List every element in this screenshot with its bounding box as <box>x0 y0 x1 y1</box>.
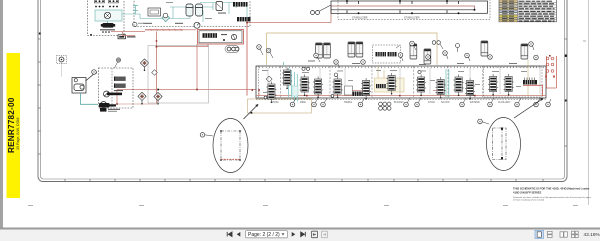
svg-text:S/LOCK: S/LOCK <box>441 101 450 104</box>
teal tee fitting 2 <box>133 11 138 15</box>
schematic frame outer border <box>38 0 567 182</box>
view mode single page selected <box>535 230 544 238</box>
detail ellipse 1 <box>213 119 248 173</box>
control valve cluster dashed box <box>99 68 134 108</box>
relief valve circle with arrow <box>104 91 110 97</box>
band dashed underline <box>256 99 546 101</box>
window chrome left strip <box>0 0 3 229</box>
hbar aux A <box>376 52 387 56</box>
pump enclosure teal box <box>95 10 122 21</box>
gauge circle <box>194 22 200 28</box>
gear pump circle <box>59 57 64 62</box>
band section dividers <box>281 66 483 98</box>
svg-text:SWING: SWING <box>344 101 352 104</box>
cyan pilot lines section 2 <box>289 68 298 102</box>
pin dots under solenoid <box>102 31 104 33</box>
relay box K1 <box>118 35 126 39</box>
page combo box <box>246 231 288 238</box>
spool s2c <box>313 77 323 99</box>
red wire harness main left <box>111 6 331 104</box>
svg-text:STICK: STICK <box>428 101 435 104</box>
cyan tick above band <box>283 62 285 66</box>
small box s3 <box>345 86 353 95</box>
callouts below band <box>290 102 295 107</box>
legend row 8 swatch <box>499 17 517 19</box>
teal tee fitting 1 <box>133 6 138 11</box>
spool s3a <box>333 77 343 99</box>
connector bank 2 <box>109 0 118 7</box>
spool s2a <box>282 68 292 90</box>
svg-text:STABILIZER: STABILIZER <box>352 15 368 19</box>
solenoid block black <box>103 23 114 28</box>
pump lever arm <box>86 73 96 81</box>
red connector bundle right of band <box>547 56 557 88</box>
solenoid hbar B <box>114 84 126 88</box>
port circle in valve box <box>231 34 236 39</box>
top-mid cluster dashed enclosure <box>134 0 250 27</box>
diamond s1 <box>266 76 272 82</box>
label 4WD <box>100 29 115 30</box>
frame zone ticks bottom <box>65 179 543 182</box>
view mode facing <box>560 232 567 237</box>
tan pilot line vertical <box>266 33 268 65</box>
valve box with red border <box>198 30 244 45</box>
connector bank frames <box>95 0 105 3</box>
label right of relay <box>127 36 136 37</box>
svg-text:THIS SCHEMATIC IS FOR THE 416D: THIS SCHEMATIC IS FOR THE 416D, 424D (Ma… <box>513 187 590 191</box>
view mode continuous <box>548 231 553 237</box>
main pump box P1 <box>72 78 86 94</box>
red harness hatched segment <box>145 29 183 31</box>
hbar s4 <box>376 84 386 88</box>
micro labels above band <box>308 61 517 66</box>
callout leader lines above band <box>260 46 534 69</box>
callout ellipse 1 <box>200 133 205 138</box>
detail ellipse 2 <box>487 118 521 171</box>
leader arrow ellipse 2 <box>514 99 543 119</box>
band top pin comb <box>256 66 546 68</box>
svg-text:EXTEND: EXTEND <box>470 101 480 104</box>
lower pump blob <box>101 102 107 108</box>
detail rect 2 dash-dot <box>493 128 507 160</box>
gear pump dashed box upper <box>57 56 67 64</box>
callout above cluster <box>116 58 121 63</box>
legend row 5 swatch <box>499 10 517 12</box>
aux box arrow <box>396 46 400 49</box>
top-left cluster dashed enclosure <box>88 0 125 36</box>
zone marker right lower <box>565 100 567 102</box>
yellow tab RENR7782-00 <box>7 53 21 198</box>
harness label block <box>100 108 107 112</box>
junction squares on red bus <box>157 89 159 91</box>
connector cluster six circles <box>379 102 391 110</box>
cylinder pair above band 2 <box>348 42 355 57</box>
svg-text:39 Page, B/W, DGM: 39 Page, B/W, DGM <box>16 118 20 150</box>
red bus segment upper in band <box>352 90 368 92</box>
legend row 3 swatch <box>499 5 517 7</box>
cylinder above band 6 <box>521 44 528 59</box>
btn prev page <box>237 232 241 237</box>
control group boundary rect <box>148 46 209 104</box>
detail rect 1 dash-dot <box>221 131 240 160</box>
zone marker left <box>39 33 41 35</box>
svg-text:STABILIZER: STABILIZER <box>404 15 420 19</box>
svg-text:RIDE: RIDE <box>300 101 306 104</box>
micro label speckles <box>138 2 527 93</box>
tan pilot line horizontal <box>267 33 438 65</box>
spool s6a <box>454 75 464 97</box>
btn first page <box>227 232 232 237</box>
rail axle ticks <box>347 1 459 13</box>
cyan pilot lines section 6 <box>446 69 449 97</box>
spool s7b <box>504 74 514 96</box>
btn next view <box>322 231 328 238</box>
cylinder above band 3 <box>410 44 417 59</box>
svg-text:416D S/N BFP SERIES: 416D S/N BFP SERIES <box>513 191 542 195</box>
junction dot left <box>90 34 92 36</box>
small port circle <box>163 13 168 18</box>
svg-text:BUCKET: BUCKET <box>394 101 404 104</box>
svg-text:BOOM: BOOM <box>271 101 278 104</box>
svg-text:43.18%: 43.18% <box>584 232 600 238</box>
toolbar background <box>0 230 600 241</box>
accumulator cylinder 1 <box>186 4 193 16</box>
legend row 4 swatch <box>499 8 517 10</box>
thin interior wires band <box>268 68 540 94</box>
detail rect 1 corner dots <box>220 130 222 132</box>
callout B right of cluster <box>133 22 137 26</box>
callouts above band <box>257 45 262 50</box>
page edge line right <box>588 0 590 205</box>
suction dotted line <box>61 64 63 78</box>
stabilizer rails box <box>331 1 488 13</box>
pressure tap diamond 3 <box>154 92 162 104</box>
spool s7a <box>488 74 498 96</box>
band left dashed edge <box>258 66 260 98</box>
svg-text:Page: 2 (2 / 2): Page: 2 (2 / 2) <box>248 232 280 238</box>
legend table border <box>499 0 557 22</box>
connector trio ooo <box>225 46 239 53</box>
cylinder pair above band 1 <box>316 43 323 58</box>
legend grid lines <box>499 0 557 22</box>
btn next page <box>292 232 296 237</box>
spool s3b <box>361 78 371 100</box>
svg-text:Schematic are those available: Schematic are those available on a fully… <box>513 196 591 199</box>
accumulator cylinder 2 <box>196 4 203 16</box>
frame zone ticks right <box>565 39 568 146</box>
btn prev view <box>312 231 318 238</box>
manifold box <box>148 8 161 16</box>
hatched block top right <box>233 2 248 7</box>
teal pilot lines web <box>122 3 247 23</box>
spool s1 <box>266 82 276 104</box>
cylinder above band 4 <box>424 49 431 64</box>
spool s6b <box>465 78 475 100</box>
red wire resistor ladder <box>523 85 543 95</box>
teal diamond fitting <box>162 14 170 22</box>
port labels cluster <box>114 90 123 91</box>
connector pair above band right <box>432 41 436 45</box>
hbar s3 <box>353 92 365 96</box>
port circle above band right <box>456 44 460 48</box>
hatched block 2 <box>237 17 251 21</box>
spool s4 <box>387 73 397 95</box>
spool s5a <box>416 75 426 97</box>
small labels top-mid <box>143 23 152 24</box>
leader arrow ellipse 1 <box>244 105 259 120</box>
legend row 1 swatch <box>499 0 517 2</box>
main valve band outline <box>256 66 546 98</box>
small diamond outline <box>152 70 158 76</box>
connector bank 1 <box>95 0 104 7</box>
btn last page <box>301 232 306 237</box>
hatched solenoid in valve box <box>203 33 218 38</box>
rail junction dots <box>346 0 476 14</box>
spool s2b <box>300 75 310 97</box>
legend row 2 swatch <box>499 3 517 5</box>
hbar aux B <box>388 52 397 56</box>
cluster divider dashed <box>111 68 113 108</box>
stabilizer dashed enclosure bottom <box>338 0 490 20</box>
tan under-band rectangle <box>248 99 312 113</box>
page bottom fold marks <box>28 41 586 206</box>
teal wire pump down <box>107 21 109 23</box>
svg-text:AUXILIARY: AUXILIARY <box>498 101 511 104</box>
filter cylinder <box>216 2 223 11</box>
band red bus <box>256 95 546 97</box>
pressure tap diamond 1 <box>140 59 148 71</box>
spool s5b <box>436 77 446 99</box>
legend row 7 swatch <box>499 15 517 17</box>
zone marker B right <box>565 55 567 57</box>
red wire in stabilizer rails <box>331 6 475 10</box>
tan pilot line right section <box>527 60 529 95</box>
detail rect 1 red dashed bottom <box>221 158 240 160</box>
svg-text:RENR7782-00: RENR7782-00 <box>7 97 16 153</box>
resistor ladder comp <box>523 80 537 84</box>
small marks in valve box <box>221 34 227 35</box>
svg-text:of those mandatory where inclu: of those mandatory where included <box>513 199 544 202</box>
solenoid hbar A2 <box>114 77 126 81</box>
band right inner dashed box <box>484 67 543 97</box>
teal suction wire from pump <box>81 93 99 104</box>
connector pair oo at rails left <box>311 11 315 15</box>
schematic frame inner border <box>41 0 565 179</box>
pressure tap diamond 2 <box>138 92 146 104</box>
tan pilot box section 4 <box>375 78 405 92</box>
legend row 6 swatch <box>499 13 517 15</box>
view mode continuous facing <box>572 231 579 237</box>
cylinder above band 5 <box>481 41 488 56</box>
callout ellipse 2 <box>478 119 483 124</box>
aux valve dashed box above band <box>373 45 401 63</box>
callout left of cluster <box>92 70 97 75</box>
legend row texts <box>502 1 555 22</box>
spool bar horizontal <box>107 93 122 96</box>
legend row 9 swatch <box>499 20 517 22</box>
detail rect 2 center line <box>501 128 503 160</box>
toolbar divider <box>0 228 600 230</box>
frame zone ticks left <box>38 39 41 154</box>
callout leader lines below band <box>294 98 552 102</box>
motor M1 circle <box>104 12 110 18</box>
